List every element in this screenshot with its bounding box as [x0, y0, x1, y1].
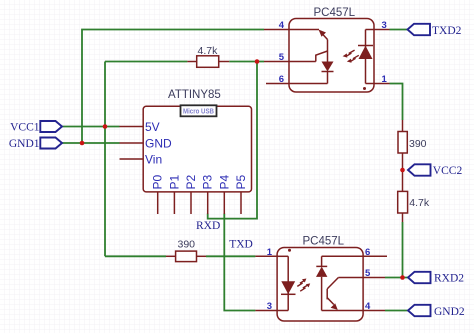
svg-text:ATTINY85: ATTINY85: [168, 89, 221, 101]
svg-text:6: 6: [365, 247, 370, 258]
svg-text:P0: P0: [151, 174, 165, 189]
svg-text:RXD: RXD: [196, 220, 220, 232]
svg-text:P3: P3: [201, 174, 215, 189]
svg-text:P2: P2: [184, 174, 198, 189]
svg-text:1: 1: [382, 74, 388, 85]
svg-text:390: 390: [409, 138, 427, 150]
svg-text:GND1: GND1: [9, 138, 40, 150]
svg-text:390: 390: [178, 238, 196, 250]
svg-text:GND2: GND2: [434, 306, 465, 318]
svg-text:5V: 5V: [145, 120, 160, 134]
svg-text:GND: GND: [145, 136, 172, 150]
svg-text:Micro USB: Micro USB: [183, 108, 214, 115]
svg-text:TXD: TXD: [229, 239, 253, 251]
svg-text:RXD2: RXD2: [434, 273, 464, 285]
svg-text:3: 3: [382, 20, 387, 31]
svg-text:4: 4: [365, 301, 371, 312]
svg-text:P5: P5: [234, 174, 248, 189]
svg-text:PC457L: PC457L: [303, 236, 345, 248]
svg-text:4.7k: 4.7k: [198, 45, 219, 57]
svg-text:4: 4: [279, 20, 285, 31]
svg-text:3: 3: [267, 301, 272, 312]
svg-text:VCC1: VCC1: [10, 122, 40, 134]
svg-text:6: 6: [279, 74, 284, 85]
svg-text:PC457L: PC457L: [314, 7, 356, 19]
svg-text:5: 5: [365, 268, 371, 279]
svg-text:4.7k: 4.7k: [409, 197, 430, 209]
svg-text:P1: P1: [167, 174, 181, 189]
svg-text:5: 5: [279, 52, 285, 63]
svg-text:1: 1: [267, 247, 273, 258]
svg-text:VCC2: VCC2: [433, 165, 463, 177]
svg-text:Vin: Vin: [145, 152, 162, 166]
svg-text:P4: P4: [217, 174, 231, 189]
svg-text:TXD2: TXD2: [432, 25, 462, 37]
